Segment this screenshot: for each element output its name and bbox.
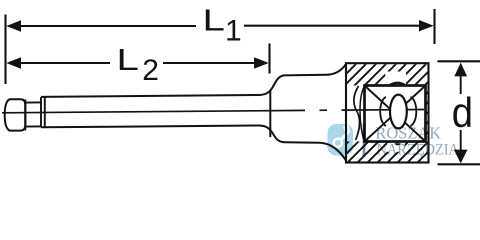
arrowhead d down <box>454 150 468 164</box>
watermark logo tile <box>328 124 354 156</box>
square diagonal 2 <box>365 86 425 141</box>
chamfer arc left of pin hole <box>380 97 386 126</box>
ball end of hex bit <box>5 99 26 130</box>
pin hole notch through bottom wall <box>387 143 404 152</box>
svg-text:NARZĘDZIA: NARZĘDZIA <box>377 142 460 159</box>
hex shaft top edge <box>41 95 260 97</box>
pin hole ellipse <box>390 95 407 129</box>
arrowhead d up <box>454 63 467 77</box>
svg-text:1: 1 <box>225 14 242 47</box>
dimension line d lower segment <box>460 130 462 150</box>
dimension line L1 right segment <box>244 25 423 27</box>
watermark key icon <box>334 126 349 147</box>
neck groove bottom edge <box>25 125 41 127</box>
socket opening profile curves (left band) <box>354 86 360 140</box>
centerline (dash-dot axis) <box>2 110 305 112</box>
dimension L1 extension tick (left, shared) <box>4 15 6 85</box>
svg-text:2: 2 <box>142 54 159 87</box>
dimension d extension line bottom <box>438 163 480 165</box>
ball-neck junction line <box>24 100 26 131</box>
neck groove top edge <box>25 101 41 103</box>
svg-text:ROSZAK: ROSZAK <box>376 123 442 142</box>
hex shaft bottom edge <box>41 126 260 128</box>
dimension line L2 right segment <box>163 62 258 64</box>
watermark separator bar <box>363 124 366 157</box>
shaft chamfer ring line 1 <box>40 97 42 127</box>
arrowhead L1 right <box>419 20 434 31</box>
square diagonal 1 <box>365 86 425 141</box>
arrowhead L2 left <box>6 57 21 68</box>
drive square opening <box>365 86 426 142</box>
svg-text:L: L <box>117 42 139 76</box>
socket body outline <box>346 63 429 162</box>
section hatching around drive square <box>347 64 428 161</box>
holder flare bottom outline <box>260 126 346 161</box>
holder flare top outline <box>260 64 346 95</box>
dimension line L1 left segment <box>17 25 196 27</box>
watermark group <box>328 123 460 158</box>
dimension d extension line top <box>438 60 480 62</box>
dimension L1 extension tick (right) <box>433 9 435 44</box>
bit end face line (L2 boundary) <box>269 91 271 138</box>
pin hole notch through top wall <box>385 72 406 86</box>
dimension L2 extension tick (right) <box>268 44 270 74</box>
chamfer arc right of pin hole <box>411 97 417 126</box>
arrowhead L2 right <box>254 57 269 68</box>
dimension line d upper segment <box>460 74 462 94</box>
dimension line L2 left segment <box>17 62 110 64</box>
shaft chamfer ring line 2 <box>44 97 46 128</box>
svg-text:L: L <box>203 3 225 37</box>
svg-text:d: d <box>452 91 473 137</box>
arrowhead L1 left <box>6 20 21 31</box>
